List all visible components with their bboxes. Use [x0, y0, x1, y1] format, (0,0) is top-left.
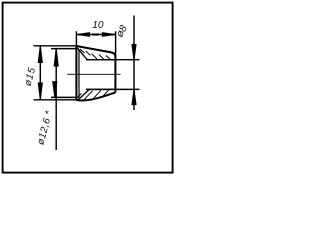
dimension dia15 line	[39, 46, 41, 100]
dia15 arrow down	[38, 83, 42, 100]
dim10 arrow left	[77, 33, 90, 37]
extension line dia8 top	[87, 59, 140, 61]
dia8 arrow down (top side)	[132, 45, 136, 60]
border frame	[3, 3, 173, 173]
hatching top wedge	[80, 49, 111, 60]
extension line dia12.6 top	[51, 48, 76, 50]
dimension 10 line	[76, 34, 115, 36]
part outline: bore bottom edge	[86, 88, 115, 90]
svg-text:10: 10	[92, 20, 104, 31]
part outline: left face	[75, 46, 77, 100]
extension line dia12.6 bottom	[51, 96, 76, 98]
dimension 10 ext line left	[75, 31, 77, 46]
dia8 arrow up (bottom side)	[132, 90, 136, 105]
dimension 10 ext line right	[115, 31, 117, 56]
part outline: outer cone top silhouette	[76, 46, 115, 57]
part outline: bore top edge	[86, 59, 115, 61]
dim10 arrow right	[102, 33, 115, 37]
dia12.6 arrow down	[53, 82, 57, 98]
part outline: large-face inner edge	[78, 50, 80, 99]
dimension dia8 line	[133, 16, 135, 111]
part outline: outer bottom silhouette (sagging arc)	[76, 92, 115, 100]
sheet background	[0, 0, 175, 175]
dimension dia12.6 line	[55, 49, 57, 150]
hatching bottom wedge	[77, 90, 109, 100]
extension line dia15 top	[34, 45, 77, 47]
dia15 arrow up	[38, 46, 42, 63]
part outline: right face	[114, 56, 116, 93]
axis center line	[67, 73, 120, 75]
dia12.6 arrow up	[54, 49, 58, 66]
extension line dia15 bottom	[34, 99, 77, 101]
dim10 center tick	[92, 33, 99, 35]
extension line dia8 bottom	[87, 88, 140, 90]
part outline: bore taper bottom	[78, 90, 89, 100]
part outline: bore taper top	[77, 48, 87, 60]
